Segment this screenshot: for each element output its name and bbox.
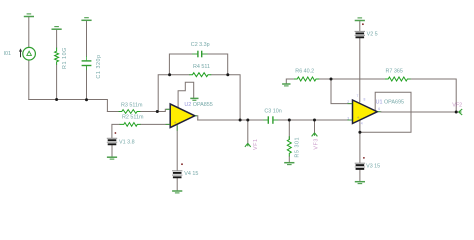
- svg-text:C3 10n: C3 10n: [264, 109, 281, 115]
- junction C1/bus: [85, 98, 88, 101]
- resistor R4: [189, 73, 211, 77]
- svg-text:6: 6: [378, 107, 380, 111]
- wire U1 neg supply: [359, 120, 361, 162]
- wire VF1 drop: [247, 120, 249, 143]
- svg-text:V4 15: V4 15: [184, 171, 198, 177]
- junction R7/U1 output: [455, 111, 458, 114]
- wire C1 top: [86, 21, 88, 56]
- wire R3 line left: [107, 111, 118, 113]
- U2 non-inverting input pin stub: [166, 123, 171, 125]
- wire R7 line: [331, 79, 456, 112]
- capacitor C2: [198, 51, 202, 58]
- svg-text:U1 OPA695: U1 OPA695: [376, 100, 404, 106]
- op-amp U2: [170, 104, 195, 128]
- svg-text:+: +: [174, 120, 177, 125]
- U1 inverting input pin stub (pin 2): [348, 103, 353, 105]
- svg-text:R7 365: R7 365: [386, 69, 403, 75]
- C2 left lead: [192, 53, 197, 55]
- wire R4 line: [170, 75, 241, 120]
- V1 plus marker: [115, 132, 117, 134]
- junction R6/R7/U1 inverting input: [330, 78, 333, 81]
- ground below V3: [355, 182, 365, 184]
- junction R1/bus: [55, 98, 58, 101]
- wire R1 top: [56, 30, 58, 48]
- U1 output pin stub (pin 6): [378, 111, 381, 113]
- probe VF2: [459, 109, 463, 115]
- ground (flipped) above R1: [52, 27, 62, 30]
- junction C2/R4 left: [168, 73, 171, 76]
- wire U1 box loop: [360, 92, 411, 132]
- current source I01: [23, 47, 36, 60]
- svg-text:R2 511m: R2 511m: [122, 115, 144, 121]
- wire R1 bottom: [56, 65, 58, 100]
- svg-text:V2 5: V2 5: [367, 32, 378, 38]
- svg-text:R3 511m: R3 511m: [121, 103, 143, 109]
- svg-text:I01: I01: [4, 51, 12, 57]
- wire R3 line right: [140, 109, 170, 111]
- svg-text:VF2: VF2: [452, 103, 462, 109]
- resistor R5 (vertical): [287, 136, 291, 156]
- ground below R5: [284, 163, 294, 165]
- svg-text:8: 8: [364, 98, 366, 102]
- wire I01 top to ground: [28, 17, 30, 47]
- wire R6 to node: [319, 78, 331, 80]
- U2 output pin stub: [195, 115, 197, 117]
- probe VF3: [312, 133, 318, 137]
- wire R5 bottom: [288, 156, 290, 162]
- svg-text:R4 511: R4 511: [193, 64, 210, 70]
- wire V2 to U1 pos supply: [359, 21, 361, 102]
- op-amp U1: [353, 100, 378, 124]
- I01 arrow: [19, 48, 22, 57]
- ground above U2 (supply): [190, 98, 198, 100]
- U1 non-inverting input pin stub (pin 3): [348, 119, 353, 121]
- U2 negative supply pin stub: [176, 126, 178, 131]
- junction R5: [288, 119, 291, 122]
- wire C2 loop: [169, 54, 227, 75]
- probe VF1: [245, 143, 251, 147]
- V3 plus marker: [363, 157, 365, 159]
- junction VF1: [246, 119, 249, 122]
- junction U1 negative supply node: [358, 131, 361, 134]
- resistor R6: [294, 77, 319, 81]
- ground (flipped) above V2: [355, 18, 365, 21]
- junction feedback/U2 output: [239, 119, 242, 122]
- capacitor C1: [82, 61, 92, 66]
- ground (flipped) above I01: [24, 14, 34, 17]
- svg-text:V1 3.8: V1 3.8: [119, 140, 135, 146]
- junction VF3: [313, 119, 316, 122]
- C1 bottom lead: [86, 66, 88, 70]
- wire output1 line: [198, 119, 353, 121]
- wire R2 left / V1 top: [112, 124, 120, 137]
- wire I01 bottom to bus: [28, 60, 30, 99]
- junction C2/R4 right: [226, 73, 229, 76]
- battery V2: [355, 31, 365, 37]
- battery V3: [355, 163, 365, 169]
- wire V3 bottom to ground: [359, 170, 361, 181]
- wire U2 supply staircase: [178, 82, 194, 107]
- ground (flipped) above C1: [81, 18, 91, 21]
- V4 plus marker: [181, 163, 183, 165]
- wire R6 ground stub: [286, 79, 294, 83]
- svg-text:C1 320p: C1 320p: [96, 54, 102, 78]
- svg-text:VF3: VF3: [313, 138, 319, 150]
- wire U1 minus input: [331, 79, 352, 104]
- svg-text:C2 3.3p: C2 3.3p: [191, 42, 210, 48]
- resistor R1 (vertical): [55, 48, 59, 65]
- resistor R2: [120, 123, 141, 127]
- junction feedback/R3 (U2 inverting input node): [156, 110, 159, 113]
- C3 right lead: [274, 119, 279, 121]
- ground below V4: [172, 191, 182, 193]
- svg-text:VF1: VF1: [253, 138, 259, 150]
- svg-text:V3 15: V3 15: [366, 164, 380, 170]
- battery V4: [172, 171, 182, 178]
- wire feedback left drop: [158, 75, 169, 112]
- resistor R3: [119, 110, 141, 114]
- battery V1: [107, 138, 117, 144]
- svg-text:R1 10G: R1 10G: [62, 47, 68, 69]
- resistor R7: [385, 77, 411, 81]
- svg-text:U2 OPA855: U2 OPA855: [184, 102, 212, 108]
- capacitor C3: [268, 116, 273, 124]
- wire U2 output jog: [195, 116, 198, 120]
- C1 top lead: [86, 56, 88, 60]
- V2 plus marker: [362, 23, 364, 25]
- wire VF3 drop: [314, 120, 316, 133]
- wire U2 neg supply to V4: [176, 125, 178, 171]
- svg-text:+: +: [357, 115, 360, 120]
- wire R2 right: [141, 123, 170, 125]
- svg-text:7: 7: [357, 94, 359, 98]
- wire V4 bottom to ground: [176, 178, 178, 190]
- C3 left lead: [263, 119, 268, 121]
- wire V1 bottom to ground: [111, 145, 113, 156]
- ground below V1: [107, 157, 117, 159]
- U2 inverting input pin stub: [166, 108, 170, 110]
- C2 right lead: [202, 53, 207, 55]
- wire bus horizontal: [29, 100, 108, 112]
- svg-text:4: 4: [361, 122, 363, 126]
- wire U1 output: [378, 111, 459, 113]
- ground at R6 left: [282, 84, 290, 86]
- wire R5 top: [288, 120, 290, 140]
- wire C1 bottom: [86, 66, 88, 100]
- svg-text:R6 40.2: R6 40.2: [295, 69, 314, 75]
- svg-text:R5 301: R5 301: [295, 137, 301, 158]
